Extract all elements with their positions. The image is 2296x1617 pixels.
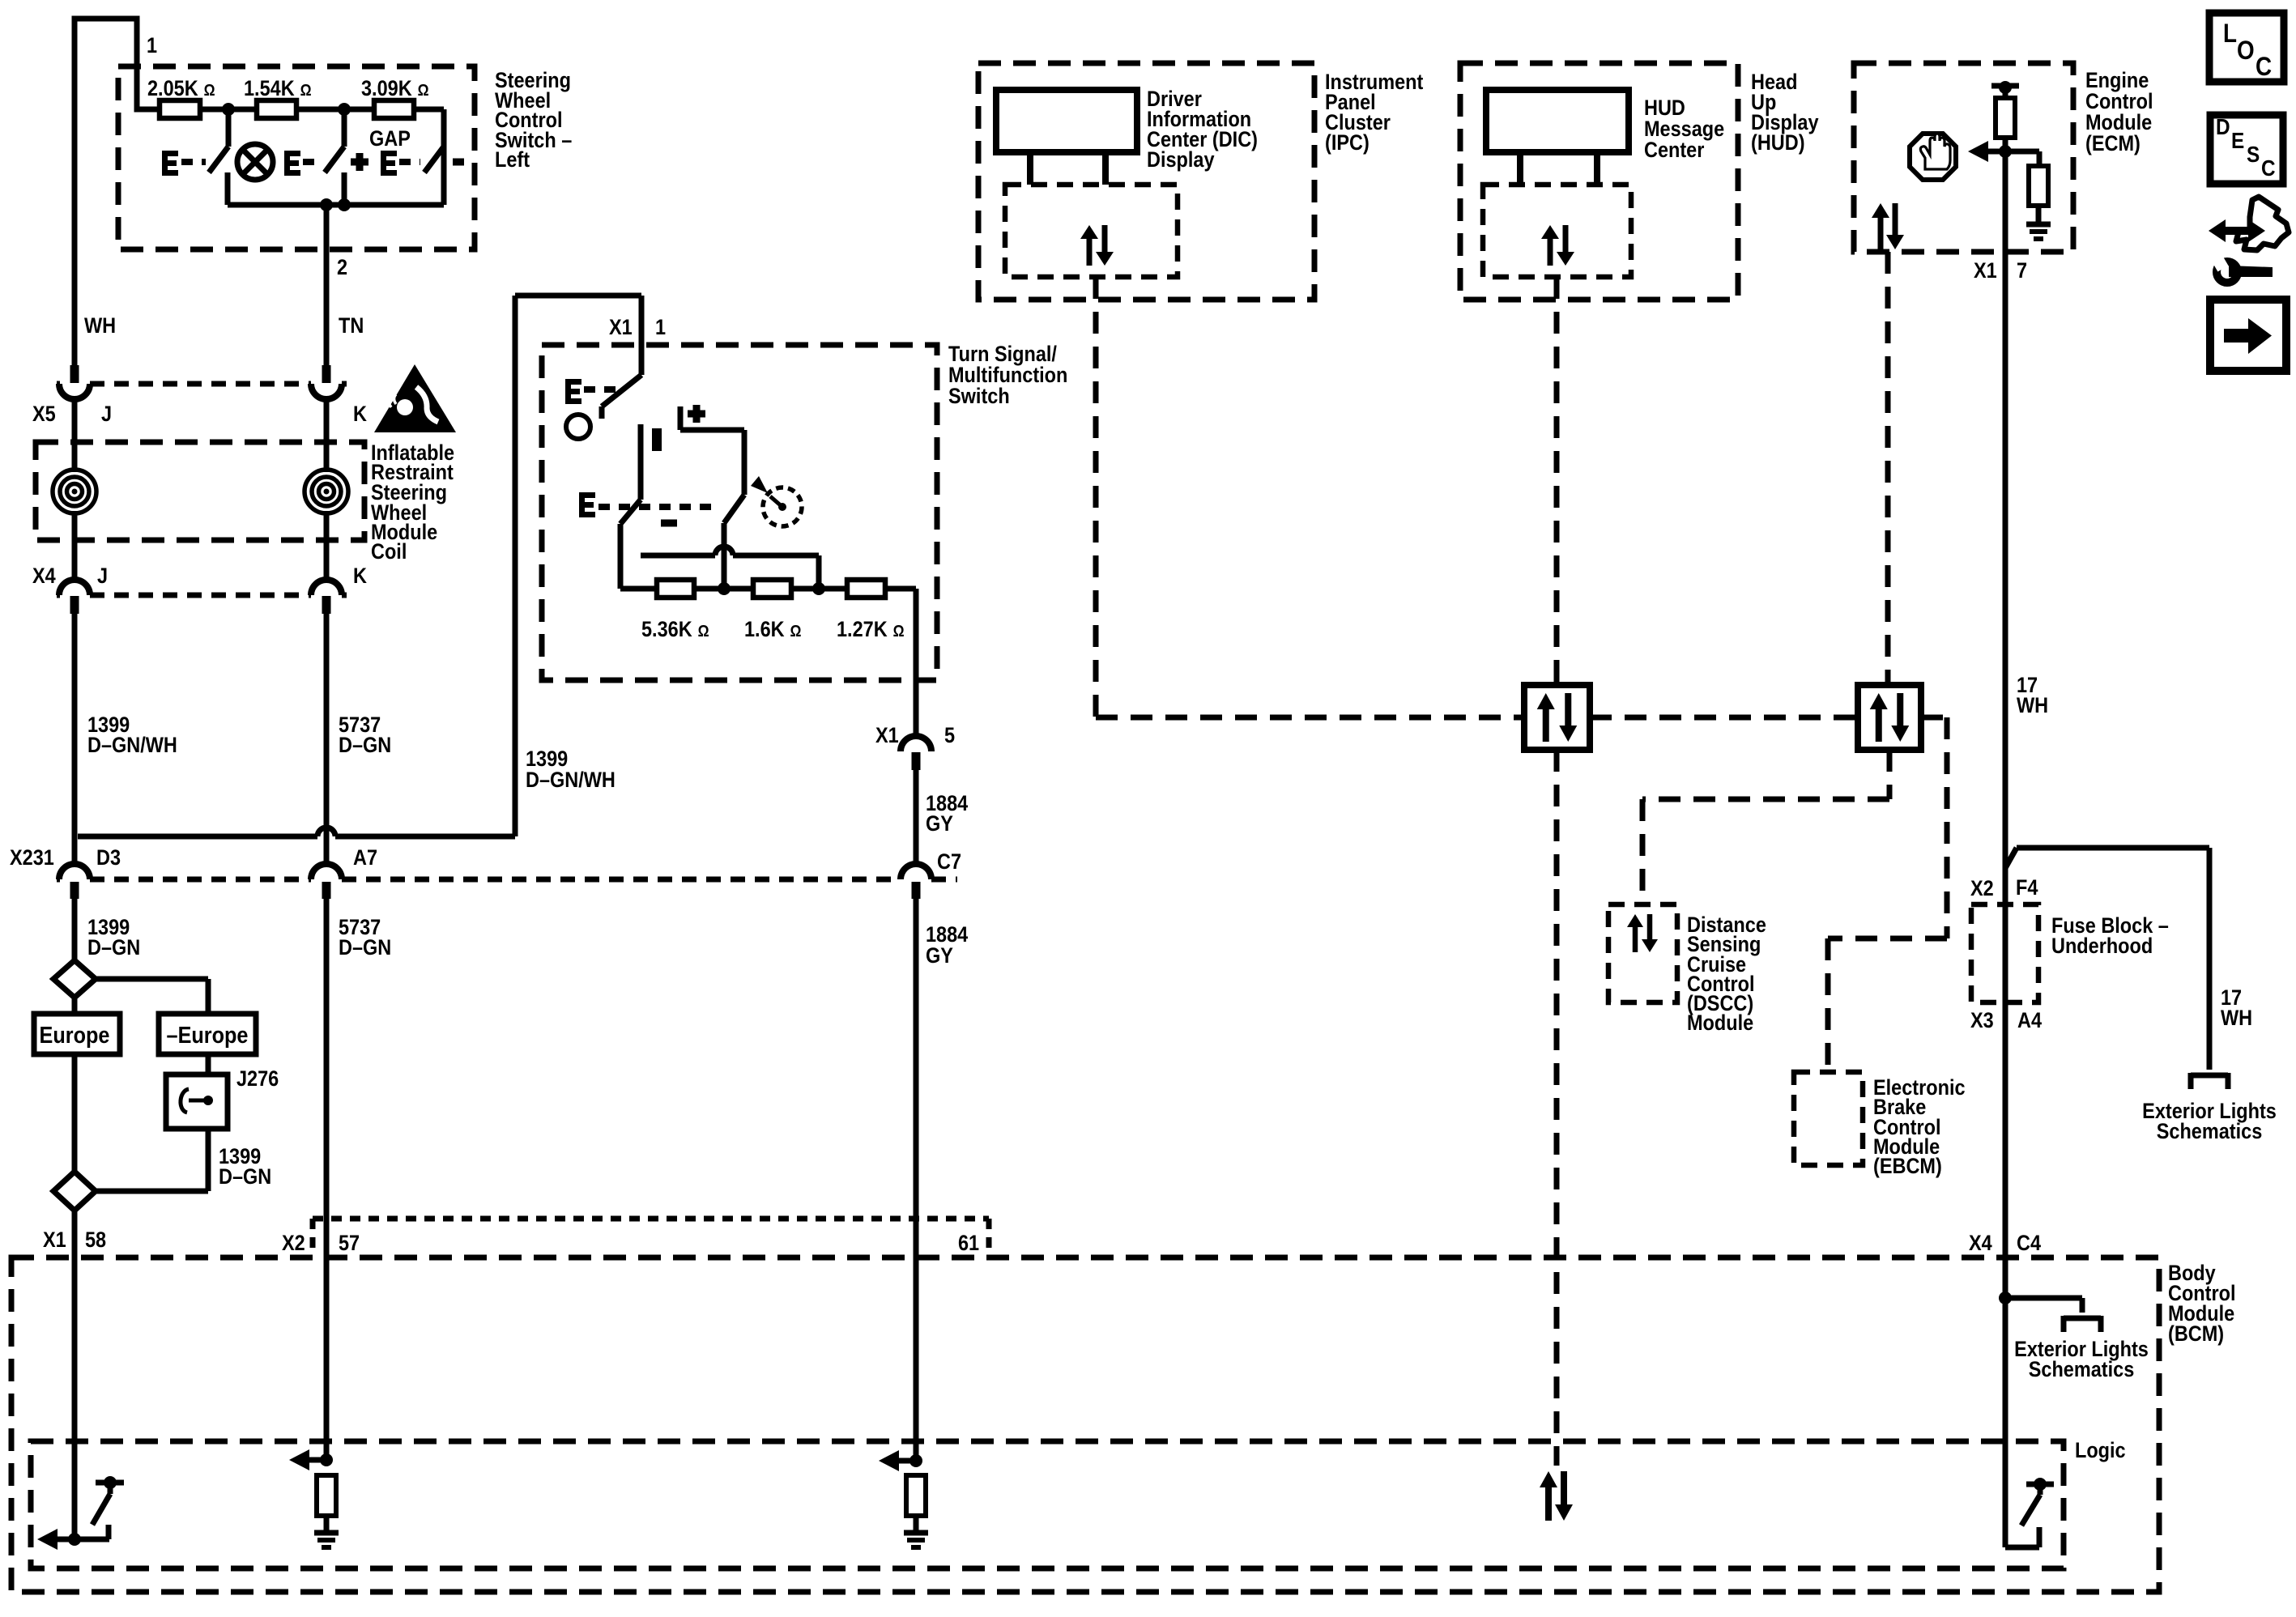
- svg-text:C7: C7: [937, 850, 961, 874]
- svg-text:5.36KΩ: 5.36KΩ: [641, 618, 709, 642]
- svg-text:J: J: [101, 402, 112, 427]
- svg-text:Schematics: Schematics: [2157, 1120, 2263, 1144]
- svg-text:WH: WH: [2221, 1006, 2252, 1031]
- svg-text:2: 2: [337, 256, 347, 280]
- svg-text:Underhood: Underhood: [2051, 934, 2153, 959]
- svg-text:GAP: GAP: [369, 127, 411, 151]
- svg-text:61: 61: [958, 1232, 979, 1256]
- svg-text:C: C: [2261, 155, 2276, 181]
- svg-text:Europe: Europe: [40, 1021, 110, 1048]
- svg-text:WH: WH: [84, 314, 116, 338]
- svg-text:Module: Module: [1687, 1011, 1753, 1036]
- svg-text:(EBCM): (EBCM): [1873, 1155, 1942, 1179]
- svg-text:1: 1: [655, 316, 666, 340]
- svg-text:GY: GY: [926, 944, 953, 968]
- svg-text:1.27KΩ: 1.27KΩ: [837, 618, 905, 642]
- svg-text:Schematics: Schematics: [2029, 1358, 2135, 1382]
- svg-text:58: 58: [85, 1228, 106, 1253]
- svg-text:X1: X1: [1974, 259, 1997, 283]
- svg-text:S: S: [2247, 141, 2260, 167]
- svg-text:X231: X231: [10, 846, 54, 870]
- svg-text:A7: A7: [353, 846, 377, 870]
- svg-text:D–GN: D–GN: [219, 1165, 271, 1189]
- svg-text:1.54KΩ: 1.54KΩ: [244, 77, 312, 101]
- svg-text:D: D: [2216, 113, 2230, 139]
- svg-text:D–GN/WH: D–GN/WH: [87, 734, 177, 758]
- svg-text:2.05KΩ: 2.05KΩ: [147, 77, 215, 101]
- svg-text:K: K: [353, 564, 368, 589]
- svg-text:E: E: [2231, 127, 2244, 153]
- svg-text:D–GN: D–GN: [339, 734, 391, 758]
- svg-text:1: 1: [147, 34, 157, 58]
- svg-text:X2: X2: [282, 1232, 305, 1256]
- svg-text:Logic: Logic: [2075, 1439, 2126, 1463]
- svg-text:WH: WH: [2017, 694, 2048, 718]
- svg-text:Center: Center: [1644, 138, 1705, 163]
- svg-text:X1: X1: [609, 316, 633, 340]
- svg-text:D–GN: D–GN: [87, 936, 140, 960]
- svg-text:X5: X5: [32, 402, 56, 427]
- svg-text:F4: F4: [2016, 876, 2038, 900]
- svg-text:Left: Left: [495, 148, 530, 172]
- svg-text:57: 57: [339, 1232, 360, 1256]
- svg-text:5: 5: [944, 724, 955, 748]
- svg-text:(BCM): (BCM): [2168, 1322, 2224, 1347]
- svg-text:C4: C4: [2017, 1232, 2041, 1256]
- svg-text:(IPC): (IPC): [1325, 131, 1370, 155]
- svg-text:GY: GY: [926, 812, 953, 836]
- svg-text:Switch: Switch: [948, 385, 1010, 409]
- svg-text:7: 7: [2017, 259, 2027, 283]
- svg-text:Coil: Coil: [371, 540, 407, 564]
- svg-text:X4: X4: [1969, 1232, 1992, 1256]
- svg-text:–Europe: –Europe: [167, 1021, 249, 1048]
- svg-text:L: L: [2223, 19, 2237, 48]
- svg-text:X3: X3: [1970, 1009, 1994, 1033]
- svg-text:A4: A4: [2017, 1009, 2042, 1033]
- svg-text:D3: D3: [96, 846, 121, 870]
- svg-text:Display: Display: [1147, 148, 1215, 172]
- svg-text:C: C: [2256, 53, 2272, 81]
- svg-text:O: O: [2237, 36, 2255, 65]
- svg-text:(ECM): (ECM): [2085, 132, 2141, 156]
- svg-text:TN: TN: [339, 314, 364, 338]
- svg-text:X2: X2: [1970, 877, 1994, 901]
- svg-text:X4: X4: [32, 564, 56, 589]
- svg-text:D–GN: D–GN: [339, 936, 391, 960]
- svg-text:D–GN/WH: D–GN/WH: [526, 768, 616, 793]
- svg-text:X1: X1: [43, 1228, 66, 1253]
- svg-text:(HUD): (HUD): [1751, 131, 1805, 155]
- svg-text:3.09KΩ: 3.09KΩ: [361, 77, 429, 101]
- svg-text:J276: J276: [236, 1067, 279, 1091]
- svg-text:J: J: [97, 564, 108, 589]
- svg-text:K: K: [353, 402, 368, 427]
- svg-text:1.6KΩ: 1.6KΩ: [744, 618, 802, 642]
- svg-text:X1: X1: [875, 724, 899, 748]
